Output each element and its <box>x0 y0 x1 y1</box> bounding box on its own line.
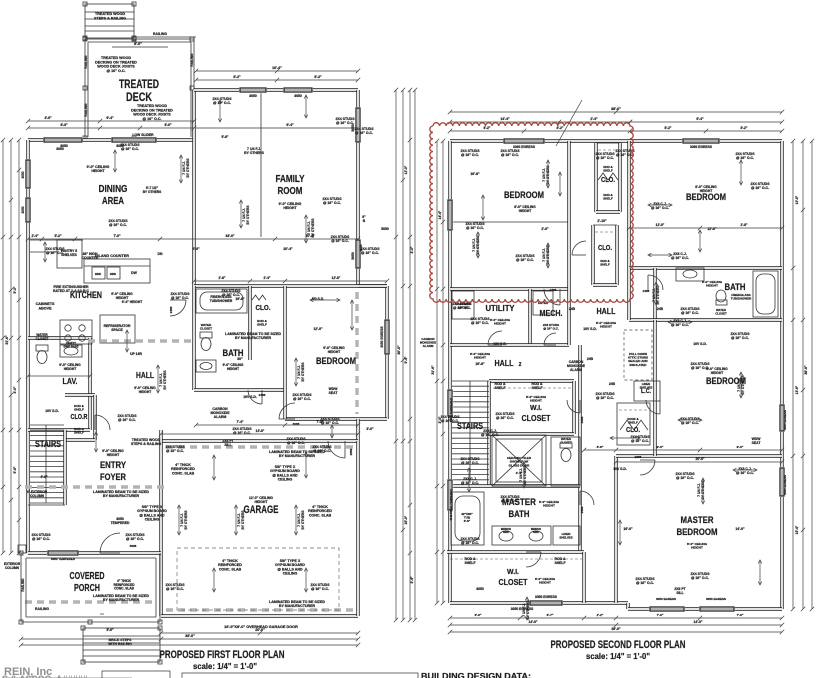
entry door <box>100 533 120 553</box>
svg-text:STAIRS: STAIRS <box>35 439 61 449</box>
svg-text:5'-0": 5'-0" <box>106 628 114 632</box>
svg-text:FOYER: FOYER <box>100 472 126 483</box>
svg-text:WATERCLOSET: WATERCLOSET <box>715 308 727 315</box>
refrigerator space <box>100 315 135 343</box>
4040 fixed west <box>447 479 453 511</box>
svg-text:15'-4": 15'-4" <box>795 525 799 534</box>
mid dims 2f <box>582 448 784 452</box>
svg-text:ROD &SHELF: ROD &SHELF <box>531 382 543 390</box>
east jog wall <box>356 419 359 441</box>
svg-text:2X4 STUDS@ 16" O.C.: 2X4 STUDS@ 16" O.C. <box>500 149 520 157</box>
svg-text:16'-8": 16'-8" <box>235 297 245 301</box>
clo.r east <box>93 395 96 440</box>
svg-text:2X4 STUDS@ 16" O.C.: 2X4 STUDS@ 16" O.C. <box>120 143 140 151</box>
svg-text:TREATED: TREATED <box>119 79 159 91</box>
svg-text:3'-0": 3'-0" <box>410 246 414 253</box>
svg-text:9'-0": 9'-0" <box>657 445 664 449</box>
west window 1 <box>25 159 31 189</box>
svg-text:2468: 2468 <box>580 506 584 513</box>
bottom dims 2f <box>448 616 784 620</box>
svg-text:3050 EGRESS: 3050 EGRESS <box>783 475 787 495</box>
svg-text:3'-6": 3'-6" <box>44 116 52 120</box>
dining/family divider south segment <box>192 140 195 286</box>
stair rail <box>45 425 47 503</box>
family room upper line <box>196 127 358 129</box>
svg-text:UP 16R: UP 16R <box>130 352 142 356</box>
bedroom arrow <box>310 298 340 302</box>
svg-text:8'-2": 8'-2" <box>484 126 491 130</box>
svg-text:LAV.: LAV. <box>63 376 78 386</box>
right dims 2f <box>791 139 795 611</box>
svg-text:MECH.: MECH. <box>540 308 563 318</box>
clo mid bifold <box>620 420 648 430</box>
svg-text:3050: 3050 <box>56 147 64 151</box>
svg-text:CERAMIC TILEDSHOWER W/GLASS DO: CERAMIC TILEDSHOWER W/GLASS DOOR <box>507 456 532 467</box>
bedroom2 west wall <box>627 141 630 268</box>
svg-text:2468: 2468 <box>259 393 266 397</box>
svg-text:12'-0": 12'-0" <box>313 327 323 331</box>
svg-text:2X4 STUDS@ 16" O.C.: 2X4 STUDS@ 16" O.C. <box>108 219 128 227</box>
treated deck outline <box>85 39 194 140</box>
svg-text:ROD &SHELF: ROD &SHELF <box>464 557 476 565</box>
svg-text:2X8 C.J.@ 16" O.C.: 2X8 C.J.@ 16" O.C. <box>651 202 669 210</box>
stairs landing line <box>28 504 65 506</box>
bath toilet 2f <box>551 437 580 486</box>
dryer box <box>533 291 553 315</box>
svg-text:16'-8": 16'-8" <box>475 362 485 366</box>
master bath north wall <box>447 484 580 487</box>
kitchen south wall <box>28 336 92 339</box>
svg-text:CLO.: CLO. <box>626 427 640 434</box>
svg-text:BUILDING DESIGN DATA:: BUILDING DESIGN DATA: <box>421 671 531 678</box>
svg-text:2'-4": 2'-4" <box>264 276 271 280</box>
svg-text:10V S.D.: 10V S.D. <box>693 342 707 346</box>
svg-text:2X4 STUDS@ 16" O.C.: 2X4 STUDS@ 16" O.C. <box>730 332 750 340</box>
svg-text:EXTERIORCOLUMN: EXTERIORCOLUMN <box>4 562 21 570</box>
clo mid right box <box>617 403 650 445</box>
svg-text:ROD &SHELF: ROD &SHELF <box>257 319 268 327</box>
south wall west part <box>450 601 628 604</box>
svg-text:5050 TEMPERED: 5050 TEMPERED <box>449 397 453 422</box>
first floor plan <box>1 2 417 671</box>
svg-text:7'-0": 7'-0" <box>737 613 744 617</box>
svg-text:2'-10": 2'-10" <box>597 219 607 223</box>
svg-text:38'-0": 38'-0" <box>185 634 195 638</box>
garage south wall <box>161 614 358 617</box>
svg-text:ROOF &SHELF: ROOF &SHELF <box>627 417 638 425</box>
svg-text:WATERCLOSET: WATERCLOSET <box>560 437 572 444</box>
svg-text:2X4 STUDS@ 16" O.C.: 2X4 STUDS@ 16" O.C. <box>675 472 695 480</box>
svg-text:2X8 C.J.@ 16" O.C.: 2X8 C.J.@ 16" O.C. <box>736 467 754 475</box>
svg-text:24B: 24B <box>569 307 576 311</box>
svg-text:2868: 2868 <box>349 448 353 455</box>
lav sink <box>60 345 82 357</box>
svg-text:6'-0": 6'-0" <box>192 247 200 251</box>
svg-text:2X8 C.J.@ 16" O.C.: 2X8 C.J.@ 16" O.C. <box>481 429 499 437</box>
svg-text:3068: 3068 <box>293 422 300 426</box>
front window 5050 <box>47 550 79 556</box>
clo top box <box>596 143 620 212</box>
svg-text:2X4 STUDS@ 16" O.C.: 2X4 STUDS@ 16" O.C. <box>690 362 710 370</box>
svg-text:6'-4": 6'-4" <box>106 116 114 120</box>
svg-text:20'-4": 20'-4" <box>306 234 315 238</box>
bath door <box>248 390 262 404</box>
lav east wall <box>88 338 91 430</box>
svg-text:SINK: SINK <box>110 272 116 276</box>
clo south wall <box>596 210 620 213</box>
utility door <box>488 331 502 345</box>
svg-text:CLO.: CLO. <box>598 245 612 252</box>
svg-text:2X8 C.J.@ 16" O.C.: 2X8 C.J.@ 16" O.C. <box>671 252 689 260</box>
svg-text:BATH: BATH <box>509 509 530 520</box>
svg-text:SINK: SINK <box>95 272 101 276</box>
master bath door <box>580 491 594 505</box>
second floor east wall <box>780 141 783 609</box>
bedroom1 east wall <box>567 141 570 289</box>
svg-text:7'-8": 7'-8" <box>317 420 324 424</box>
second floor west wall <box>448 141 451 603</box>
front entry wall <box>28 551 161 554</box>
svg-text:14'-4": 14'-4" <box>500 117 510 121</box>
svg-text:2X4 STUDS@ 16" O.C.: 2X4 STUDS@ 16" O.C. <box>460 457 480 465</box>
laminated beam garage south <box>166 608 354 611</box>
brick steps <box>83 628 160 662</box>
laminated beam porch <box>25 600 156 603</box>
step wall deck east <box>192 90 195 140</box>
svg-text:BEDROOM: BEDROOM <box>677 527 718 538</box>
mech door <box>544 333 556 345</box>
svg-text:3050 EGRESS: 3050 EGRESS <box>380 326 384 347</box>
svg-text:7'-0": 7'-0" <box>657 613 664 617</box>
svg-text:5/0 S.D.: 5/0 S.D. <box>312 297 324 301</box>
exterior column <box>18 545 26 553</box>
svg-text:8'-3": 8'-3" <box>60 123 68 127</box>
dining-family open divider <box>260 90 262 237</box>
top dimension strings family <box>194 69 360 73</box>
svg-text:2'-2": 2'-2" <box>597 613 604 617</box>
svg-text:8'-2": 8'-2" <box>665 126 672 130</box>
bath tub <box>196 289 247 313</box>
svg-text:2: 2 <box>519 362 522 368</box>
svg-text:3'-0": 3'-0" <box>366 427 374 431</box>
svg-text:2468: 2468 <box>643 289 650 293</box>
svg-text:ROD &SHELF: ROD &SHELF <box>603 165 613 173</box>
svg-text:TREATED WOODSTEPS & RAILING: TREATED WOODSTEPS & RAILING <box>131 438 162 446</box>
svg-text:2X4 STUDS@ 16" O.C.: 2X4 STUDS@ 16" O.C. <box>165 445 185 453</box>
svg-text:3050: 3050 <box>21 171 25 178</box>
ceramic shower <box>492 435 546 486</box>
bath toilet <box>200 332 212 338</box>
svg-text:2X4 STUDS@ 16" O.C.: 2X4 STUDS@ 16" O.C. <box>595 392 615 400</box>
bedroom south wall <box>285 417 387 420</box>
svg-text:12'-0": 12'-0" <box>656 223 665 227</box>
svg-text:14'-0": 14'-0" <box>529 620 538 624</box>
attic stairs dashed <box>624 330 652 380</box>
clo divider <box>248 286 251 360</box>
svg-text:24B: 24B <box>609 382 616 386</box>
svg-text:31'-6": 31'-6" <box>431 365 435 375</box>
bath2 vanity <box>676 268 704 281</box>
svg-text:2X4 STUDS@ 16" O.C.: 2X4 STUDS@ 16" O.C. <box>354 127 374 135</box>
svg-text:20'-4": 20'-4" <box>283 247 293 251</box>
svg-text:13'-6": 13'-6" <box>795 385 799 394</box>
svg-text:10V S.D.: 10V S.D. <box>583 327 597 331</box>
svg-text:PORCH: PORCH <box>74 583 100 594</box>
svg-text:FAMILY: FAMILY <box>276 174 305 185</box>
svg-text:14'-4": 14'-4" <box>438 210 442 219</box>
clo2 south wall <box>593 283 617 286</box>
svg-text:7'-0": 7'-0" <box>113 234 121 238</box>
deck railing line <box>134 36 196 38</box>
island counter <box>84 259 150 283</box>
bedroom door <box>279 403 295 419</box>
wic south wall <box>489 432 574 435</box>
svg-text:10V S.D.: 10V S.D. <box>493 342 507 346</box>
svg-text:W.I.: W.I. <box>507 569 519 576</box>
svg-text:3050: 3050 <box>294 94 302 98</box>
garage north wall <box>161 439 358 442</box>
svg-text:8'-2": 8'-2" <box>741 126 748 130</box>
svg-text:38'-0": 38'-0" <box>611 107 621 111</box>
svg-text:38'-0": 38'-0" <box>611 627 621 631</box>
beam dashed vertical bedroom <box>355 292 358 414</box>
mid dims <box>26 237 360 241</box>
svg-text:16'-0": 16'-0" <box>623 527 633 531</box>
bath2 west wall <box>653 268 656 320</box>
svg-text:8'-2": 8'-2" <box>233 75 241 79</box>
svg-text:CLOSET: CLOSET <box>522 413 552 423</box>
svg-text:3060 EGRESS: 3060 EGRESS <box>513 145 536 149</box>
svg-text:2X4 STUDS@ 16" O.C.: 2X4 STUDS@ 16" O.C. <box>170 292 190 300</box>
clo.r south <box>65 438 95 441</box>
svg-text:2X4 STUDS@ 16" O.C.: 2X4 STUDS@ 16" O.C. <box>322 197 342 205</box>
master tub <box>451 492 484 545</box>
svg-text:2X4 STUDS@ 16" O.C.: 2X4 STUDS@ 16" O.C. <box>452 302 472 310</box>
wic north wall <box>489 379 574 382</box>
svg-text:2X4 STUDS@ 16" O.C.: 2X4 STUDS@ 16" O.C. <box>595 152 615 160</box>
dim above bath/bedroom <box>192 279 389 283</box>
svg-text:9'-4": 9'-4" <box>404 356 408 363</box>
clo.r north <box>65 393 95 396</box>
svg-text:LOW SLIDER: LOW SLIDER <box>132 133 154 137</box>
svg-text:HALL: HALL <box>495 358 514 368</box>
svg-text:2'-0": 2'-0" <box>541 227 549 231</box>
svg-text:3050: 3050 <box>21 206 25 213</box>
svg-text:ISLAND COUNTER: ISLAND COUNTER <box>95 254 129 258</box>
closet rods <box>598 149 618 151</box>
bath vanity <box>196 360 216 372</box>
clo2 east wall <box>615 225 618 285</box>
family window 2 <box>283 87 313 93</box>
svg-text:7'-4": 7'-4" <box>237 420 244 424</box>
svg-text:2X4 STUDS@ 16" O.C.: 2X4 STUDS@ 16" O.C. <box>31 533 51 541</box>
svg-text:WDWSEAT: WDWSEAT <box>329 387 339 395</box>
svg-text:2X4 STUDS@ 16" O.C.: 2X4 STUDS@ 16" O.C. <box>312 445 332 453</box>
svg-text:20'-0": 20'-0" <box>696 457 705 461</box>
svg-text:2X6 STUDS@ 16" O.C.: 2X6 STUDS@ 16" O.C. <box>543 323 559 331</box>
svg-text:BATH: BATH <box>725 282 746 292</box>
family room east wall <box>356 90 359 286</box>
svg-text:31'-0": 31'-0" <box>5 335 9 345</box>
svg-text:3'-0": 3'-0" <box>438 416 442 423</box>
3050 window south <box>529 600 563 606</box>
svg-text:5'-0": 5'-0" <box>13 286 17 293</box>
svg-text:PROPOSED FIRST FLOOR PLAN: PROPOSED FIRST FLOOR PLAN <box>160 649 285 661</box>
utility south wall <box>450 343 569 346</box>
svg-text:RAILING: RAILING <box>35 607 49 611</box>
stairs east wall 2 <box>487 381 490 486</box>
kitchen counter edge <box>30 239 83 241</box>
svg-text:2X4 STUDS@ 16" O.C.: 2X4 STUDS@ 16" O.C. <box>460 537 480 545</box>
bottom table 2 <box>182 673 418 678</box>
sink 2 <box>107 267 120 279</box>
bedroom2 door <box>648 275 663 290</box>
svg-text:14'-0": 14'-0" <box>694 620 703 624</box>
west window up <box>447 199 453 231</box>
svg-text:3050: 3050 <box>476 587 484 591</box>
bedroom1 door <box>544 289 560 305</box>
svg-text:9'-0": 9'-0" <box>737 445 744 449</box>
dining north wall <box>28 138 195 141</box>
3050 egress east 2 <box>779 467 785 497</box>
3050 egress south 2 <box>699 606 735 612</box>
svg-text:ROD &SHELF: ROD &SHELF <box>494 382 506 390</box>
garage west wall <box>159 441 162 616</box>
master bedroom door <box>640 460 655 475</box>
svg-text:20'-0": 20'-0" <box>404 515 408 524</box>
svg-text:3050 EGRESS: 3050 EGRESS <box>706 597 726 601</box>
svg-text:2X4 STUDS@ 16" O.C.: 2X4 STUDS@ 16" O.C. <box>680 307 700 315</box>
svg-text:6'-4" HEIGHT: 6'-4" HEIGHT <box>122 300 142 304</box>
svg-text:2X4 STUDS@ 16" O.C.: 2X4 STUDS@ 16" O.C. <box>680 417 700 425</box>
range <box>60 320 92 344</box>
svg-text:2X4 STUDS@ 16" O.C.: 2X4 STUDS@ 16" O.C. <box>460 149 480 157</box>
svg-text:ROD &SHELF: ROD &SHELF <box>74 404 85 412</box>
svg-text:scale: 1/4" = 1'-0": scale: 1/4" = 1'-0" <box>193 661 257 671</box>
svg-text:DN: DN <box>158 252 163 256</box>
svg-text:8'-2": 8'-2" <box>314 75 322 79</box>
svg-text:AREA: AREA <box>102 196 124 207</box>
svg-text:36" HIGHCOUNTER: 36" HIGHCOUNTER <box>82 252 99 260</box>
bedroom east wall <box>385 286 388 419</box>
svg-text:2X4 STUDS@ 16" O.C.: 2X4 STUDS@ 16" O.C. <box>690 572 710 580</box>
svg-text:RAILING: RAILING <box>190 53 194 67</box>
LC box <box>634 381 660 401</box>
svg-text:2X4 STUDS@ 16" O.C.: 2X4 STUDS@ 16" O.C. <box>495 412 515 420</box>
bedroom egress window <box>384 319 390 355</box>
svg-text:10V S.D.: 10V S.D. <box>45 409 59 413</box>
laminated beam garage north <box>166 445 354 448</box>
svg-text:3060 EGRESS: 3060 EGRESS <box>690 145 713 149</box>
revision cloud (red) <box>430 123 634 303</box>
svg-text:4'-0": 4'-0" <box>40 475 48 479</box>
svg-text:14'-8": 14'-8" <box>256 429 265 433</box>
svg-text:2X4 STUDS@ 16" O.C.: 2X4 STUDS@ 16" O.C. <box>45 247 65 255</box>
master sinks <box>492 526 551 545</box>
svg-text:CLOSET: CLOSET <box>499 577 529 587</box>
svg-text:24B: 24B <box>587 357 594 361</box>
svg-text:2X4 STUDS@ 16" O.C.: 2X4 STUDS@ 16" O.C. <box>500 495 520 503</box>
svg-text:RAILING: RAILING <box>21 578 25 592</box>
svg-text:CLO.R: CLO.R <box>71 414 88 421</box>
svg-text:20'-0": 20'-0" <box>255 628 265 632</box>
joist direction arrows 2f <box>546 160 550 188</box>
lav toilet <box>36 345 48 351</box>
svg-text:2X4 STUDS@ 16" O.C.: 2X4 STUDS@ 16" O.C. <box>221 289 241 297</box>
svg-text:2X4 STUDS@ 16" O.C.: 2X4 STUDS@ 16" O.C. <box>310 583 330 591</box>
lav south wall <box>28 428 90 431</box>
bath hall door <box>567 400 580 413</box>
clo door <box>95 415 110 430</box>
wic2 north wall <box>447 550 584 553</box>
stairs east wall <box>63 430 66 505</box>
svg-text:6'-4": 6'-4" <box>286 123 294 127</box>
svg-text:DW: DW <box>131 271 137 275</box>
svg-text:ROD &SHELF: ROD &SHELF <box>74 427 85 435</box>
joist direction arrows 1f <box>179 155 183 183</box>
svg-text:3050 EGRESS: 3050 EGRESS <box>783 410 787 430</box>
5050 tempered west <box>447 389 453 417</box>
clo2 door <box>572 241 586 255</box>
bedroom3 south wall <box>616 454 782 457</box>
svg-text:2X4 STUDS@ 16" O.C.: 2X4 STUDS@ 16" O.C. <box>165 583 185 591</box>
bottom table 1 <box>102 671 170 678</box>
svg-text:10'-6": 10'-6" <box>795 195 799 204</box>
svg-text:ROOM: ROOM <box>278 186 303 197</box>
svg-text:6'-4": 6'-4" <box>696 117 704 121</box>
svg-text:30'-0": 30'-0" <box>397 345 401 355</box>
west window 2 <box>25 197 31 223</box>
dining window 3050 <box>43 137 83 143</box>
entry east <box>159 430 162 441</box>
right dimension strings <box>394 88 398 622</box>
svg-text:WATERCLOSET: WATERCLOSET <box>36 333 49 341</box>
svg-text:12'-0": 12'-0" <box>404 165 408 174</box>
clo east wall <box>618 143 621 212</box>
svg-text:2468: 2468 <box>550 288 557 292</box>
wic2 east wall <box>582 552 585 603</box>
family room north wall <box>194 88 358 91</box>
svg-text:scale: 1/4" = 1'-0": scale: 1/4" = 1'-0" <box>586 651 650 661</box>
mech east wall <box>567 289 570 345</box>
svg-text:16'-8": 16'-8" <box>470 172 480 176</box>
east window 3050 <box>355 107 361 143</box>
bath2 toilet <box>716 300 727 305</box>
svg-text:3'-0": 3'-0" <box>13 386 17 393</box>
svg-text:BEDROOM: BEDROOM <box>686 192 726 203</box>
svg-text:16'-4": 16'-4" <box>272 66 282 70</box>
south jog <box>626 603 629 609</box>
utility-mech divider <box>528 289 531 345</box>
svg-text:6'-6": 6'-6" <box>475 613 482 617</box>
svg-text:S & ASSOC. A#####: S & ASSOC. A##### <box>2 674 87 678</box>
svg-text:30": 30" <box>237 357 243 361</box>
low slider window <box>111 137 157 143</box>
svg-text:FIBERGLASSTUB/SHOWER: FIBERGLASSTUB/SHOWER <box>731 293 752 301</box>
svg-text:3068: 3068 <box>130 544 137 548</box>
svg-text:3'-8": 3'-8" <box>597 445 604 449</box>
wic east wall <box>572 381 575 434</box>
svg-text:38'-0": 38'-0" <box>804 365 808 375</box>
bedroom3 west wall <box>653 320 656 456</box>
svg-text:2X4 STUDS@ 16" O.C.: 2X4 STUDS@ 16" O.C. <box>515 254 535 262</box>
svg-text:DECK: DECK <box>126 92 153 104</box>
bedroom west wall <box>283 286 286 419</box>
garage slab dashed rect <box>177 548 339 610</box>
svg-text:3050 EGRESS: 3050 EGRESS <box>535 595 558 599</box>
treated wood steps box <box>85 4 134 38</box>
svg-text:BEDROOM: BEDROOM <box>316 356 356 367</box>
